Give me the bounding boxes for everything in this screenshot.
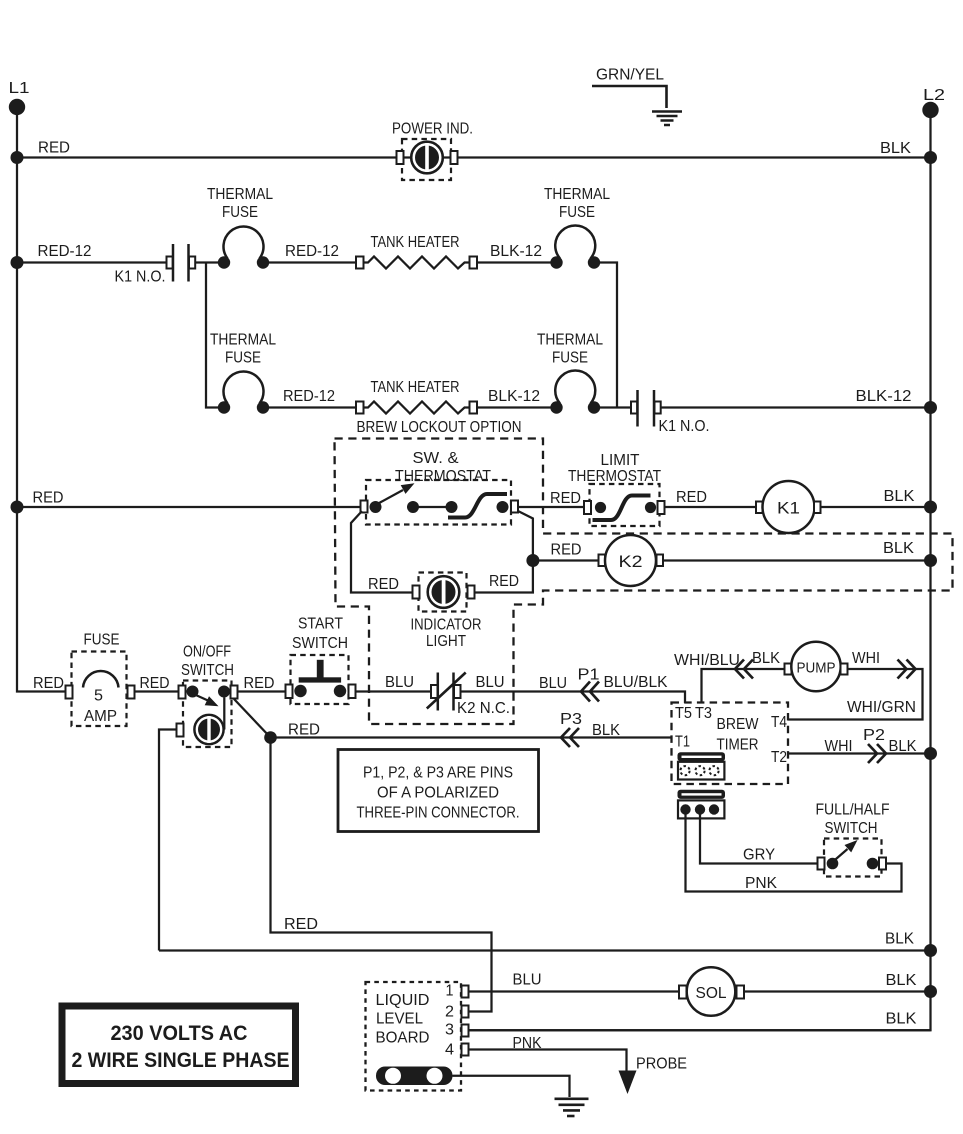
connector timer upper bar	[678, 752, 726, 761]
svg-text:K1 N.O.: K1 N.O.	[659, 418, 710, 435]
connector chevrons WHI right	[898, 660, 916, 679]
svg-text:LIGHT: LIGHT	[426, 633, 466, 650]
svg-text:P1, P2, & P3 ARE PINS: P1, P2, & P3 ARE PINS	[363, 765, 513, 782]
svg-text:3: 3	[445, 1022, 454, 1039]
svg-text:BLK: BLK	[885, 931, 914, 948]
node junction L2 row4	[924, 501, 937, 514]
svg-text:BLK-12: BLK-12	[488, 388, 540, 405]
fuse FUSE 5 AMP	[66, 632, 135, 727]
svg-text:1: 1	[446, 983, 454, 1000]
svg-text:BREW: BREW	[717, 716, 760, 733]
svg-text:230 VOLTS AC: 230 VOLTS AC	[111, 1022, 248, 1045]
connector timer upper socket	[678, 762, 724, 780]
solenoid SOL	[679, 967, 744, 1016]
svg-text:RED: RED	[33, 490, 64, 507]
svg-text:THREE-PIN CONNECTOR.: THREE-PIN CONNECTOR.	[357, 805, 520, 822]
svg-text:RED: RED	[489, 573, 519, 590]
pin 4	[445, 1042, 469, 1059]
connector pin P1 chevrons	[581, 682, 599, 702]
wire heater to fuse row3	[477, 406, 557, 408]
svg-text:SW. &: SW. &	[413, 450, 459, 467]
wire GRN/YEL to ground	[592, 86, 667, 108]
svg-text:THERMAL: THERMAL	[210, 332, 276, 349]
svg-text:2 WIRE SINGLE PHASE: 2 WIRE SINGLE PHASE	[72, 1049, 290, 1072]
wire fuse to heater row3	[263, 406, 356, 408]
wire lamp to bottom BLK row	[159, 730, 177, 951]
connector board pill	[376, 1067, 453, 1086]
wire P3 row to brew timer T1	[271, 736, 672, 738]
svg-text:BLK: BLK	[752, 650, 780, 667]
svg-text:RED: RED	[140, 675, 170, 692]
wire fuse to heater row2	[263, 261, 356, 263]
svg-text:WHI: WHI	[852, 650, 880, 667]
svg-text:FUSE: FUSE	[222, 204, 258, 221]
lamp POWER IND.	[392, 121, 473, 181]
wire fuse to on/off switch	[135, 690, 179, 692]
wire start switch to K2 N.C.	[356, 690, 432, 692]
connector pin P2 chevrons	[868, 744, 886, 763]
node junction L2 row3	[924, 401, 937, 414]
svg-text:T4: T4	[771, 714, 787, 731]
thermostat LIMIT THERMOSTAT	[568, 452, 665, 526]
svg-text:5: 5	[94, 688, 103, 705]
thermal fuse row3 right	[537, 332, 603, 414]
svg-text:BLK: BLK	[889, 738, 917, 755]
svg-text:T2: T2	[771, 749, 787, 766]
wire contact to fuse dot	[196, 261, 225, 263]
svg-text:BLU: BLU	[385, 674, 414, 691]
svg-text:K1: K1	[777, 499, 800, 518]
svg-text:BLK: BLK	[883, 540, 914, 557]
wire L1 to K1 contact	[17, 261, 167, 263]
wire K2 to L2	[663, 559, 931, 561]
wire pin3 BLK row	[469, 1029, 931, 1031]
svg-text:BLK-12: BLK-12	[490, 243, 542, 260]
ground earth symbol top	[652, 112, 682, 126]
wire K1 to L2	[821, 506, 931, 508]
wire solenoid to L2	[744, 990, 931, 992]
svg-text:FUSE: FUSE	[559, 204, 595, 221]
connector timer upper slot	[682, 756, 722, 758]
ground earth symbol bottom	[555, 1099, 589, 1116]
contact K1 N.O. row3	[631, 390, 710, 435]
wire pump to elbow down to T4	[788, 669, 923, 720]
probe PROBE arrow	[619, 1056, 688, 1095]
svg-text:T5: T5	[675, 705, 692, 722]
wire fuse to contact row3	[594, 406, 631, 408]
svg-text:POWER IND.: POWER IND.	[392, 121, 473, 138]
svg-text:PNK: PNK	[513, 1035, 542, 1052]
svg-text:BLK: BLK	[886, 972, 917, 989]
svg-text:T1: T1	[675, 734, 690, 751]
resistor TANK HEATER row2	[356, 234, 477, 269]
motor PUMP	[785, 642, 848, 691]
svg-text:RED: RED	[244, 675, 275, 692]
svg-text:AMP: AMP	[84, 708, 117, 725]
svg-text:BLK: BLK	[880, 140, 911, 157]
svg-text:THERMAL: THERMAL	[537, 332, 603, 349]
box BREW TIMER dashed	[672, 703, 789, 785]
svg-text:RED: RED	[551, 542, 582, 559]
node junction L1 row4	[11, 501, 24, 514]
node junction L1 row1	[11, 151, 24, 164]
svg-text:BLK-12: BLK-12	[856, 388, 912, 405]
relay coil K2	[599, 535, 664, 586]
switch SW. & THERMOSTAT	[361, 450, 519, 525]
note box P1 P2 P3 pins	[338, 750, 539, 832]
wire pin4 PNK to probe	[469, 1050, 627, 1072]
svg-text:BLU: BLU	[476, 674, 505, 691]
svg-text:SWITCH: SWITCH	[292, 635, 348, 652]
wire on/off to start switch	[238, 690, 286, 692]
svg-text:BOARD: BOARD	[376, 1030, 430, 1047]
svg-text:PUMP: PUMP	[797, 660, 836, 677]
svg-text:P3: P3	[560, 711, 582, 728]
svg-text:TANK HEATER: TANK HEATER	[371, 234, 460, 251]
pin 1	[446, 983, 469, 1000]
node junction L1 row2	[11, 256, 24, 269]
svg-text:BLK: BLK	[886, 1011, 917, 1028]
switch ON/OFF SWITCH	[177, 644, 238, 748]
wire sw-thermostat to limit thermostat	[518, 506, 584, 508]
svg-text:L1: L1	[9, 80, 30, 97]
svg-text:RED: RED	[550, 490, 581, 507]
svg-text:K2 N.C.: K2 N.C.	[457, 700, 510, 717]
svg-text:FUSE: FUSE	[225, 350, 261, 367]
svg-text:T3: T3	[695, 705, 712, 722]
wire bypass right riser	[475, 511, 533, 593]
wire RED down from P3 junction to board pin2	[271, 738, 492, 1012]
svg-text:PROBE: PROBE	[636, 1056, 687, 1073]
node L1	[9, 80, 30, 115]
svg-text:THERMAL: THERMAL	[544, 186, 610, 203]
svg-text:4: 4	[445, 1042, 454, 1059]
wire L1 rail	[17, 107, 66, 692]
wire diagonal to P3 junction	[234, 699, 271, 738]
pin 2	[445, 1004, 469, 1021]
svg-text:P1: P1	[578, 667, 600, 684]
wire row2 elbow down to row3	[594, 263, 617, 408]
svg-text:RED: RED	[38, 140, 70, 157]
svg-text:FUSE: FUSE	[552, 350, 588, 367]
label box 230 VOLTS AC	[62, 1006, 296, 1084]
wire PNK left pin loop	[686, 812, 902, 892]
svg-text:K1 N.O.: K1 N.O.	[115, 269, 166, 286]
svg-text:RED: RED	[33, 675, 64, 692]
contact K1 N.O. row2	[115, 244, 196, 286]
svg-text:TANK HEATER: TANK HEATER	[371, 379, 460, 396]
svg-text:INDICATOR: INDICATOR	[411, 617, 482, 634]
svg-text:BLU: BLU	[539, 675, 567, 692]
svg-text:RED: RED	[284, 916, 318, 933]
wire limit to K1 coil	[665, 506, 757, 508]
wire L2 rail	[469, 110, 931, 1030]
svg-text:OF A POLARIZED: OF A POLARIZED	[377, 785, 499, 802]
node junction L2 BLK bottom	[924, 944, 937, 957]
switch START SWITCH	[286, 616, 356, 705]
node junction L2 row1	[924, 151, 937, 164]
svg-text:L2: L2	[923, 87, 945, 104]
wire junction to K2 coil	[533, 559, 599, 561]
pin 3	[445, 1022, 469, 1039]
wire BLK bottom row to L2	[159, 949, 931, 951]
svg-text:GRY: GRY	[743, 847, 775, 864]
svg-text:SOL: SOL	[696, 985, 727, 1002]
wire pill to ground	[453, 1076, 570, 1097]
connector timer lower socket with pins	[678, 800, 724, 818]
node junction K2 branch	[526, 554, 539, 567]
svg-text:BREW LOCKOUT OPTION: BREW LOCKOUT OPTION	[357, 419, 522, 436]
thermal fuse row2 left	[207, 186, 273, 269]
node L2	[922, 87, 945, 118]
node junction L2 T2 row	[924, 747, 937, 760]
svg-text:TIMER: TIMER	[717, 737, 759, 754]
box brew lockout option dashed outline	[335, 439, 953, 725]
resistor TANK HEATER row3	[356, 379, 477, 414]
svg-text:LEVEL: LEVEL	[376, 1011, 423, 1028]
svg-text:SWITCH: SWITCH	[825, 820, 878, 837]
connector pin P3 chevrons	[561, 728, 579, 747]
svg-text:BLU/BLK: BLU/BLK	[604, 674, 668, 691]
node junction L2 solenoid row	[924, 985, 937, 998]
svg-text:P2: P2	[863, 727, 885, 744]
wire T2 to L2	[788, 752, 931, 754]
svg-text:LIQUID: LIQUID	[376, 992, 430, 1009]
wire K2 N.C. to brew timer T5	[461, 692, 685, 704]
connector timer lower slot	[682, 793, 722, 795]
svg-text:FUSE: FUSE	[84, 632, 120, 649]
svg-text:RED: RED	[288, 722, 320, 739]
svg-text:BLK: BLK	[884, 488, 915, 505]
wire contact to L2 row3	[661, 406, 931, 408]
wire branch down to row3	[206, 263, 224, 408]
wire L1 to sw-thermostat	[17, 506, 361, 508]
wire bypass left drop	[351, 511, 413, 593]
svg-text:ON/OFF: ON/OFF	[183, 644, 231, 661]
contact K2 N.C.	[427, 673, 510, 718]
svg-text:SWITCH: SWITCH	[181, 662, 234, 679]
node junction L2 K2 row	[924, 554, 937, 567]
svg-text:RED: RED	[368, 576, 399, 593]
svg-text:RED-12: RED-12	[285, 243, 339, 260]
svg-text:GRN/YEL: GRN/YEL	[596, 67, 664, 84]
thermal fuse row2 right	[544, 186, 610, 269]
svg-text:WHI/GRN: WHI/GRN	[847, 699, 916, 716]
board LIQUID LEVEL BOARD	[366, 982, 462, 1091]
svg-text:LIMIT: LIMIT	[601, 452, 640, 469]
svg-text:START: START	[298, 616, 343, 633]
svg-text:RED-12: RED-12	[38, 243, 92, 260]
thermal fuse row3 left	[210, 332, 276, 414]
wire T3 to pump	[702, 669, 785, 703]
svg-text:BLU: BLU	[513, 972, 542, 989]
relay coil K1	[756, 481, 821, 533]
connector chevrons WHI/BLU-BLK	[735, 660, 753, 679]
svg-text:BLK: BLK	[592, 722, 620, 739]
svg-text:THERMOSTAT: THERMOSTAT	[395, 468, 491, 485]
wire pin1 BLU to solenoid	[469, 990, 680, 992]
lamp INDICATOR LIGHT	[411, 573, 482, 651]
svg-text:FULL/HALF: FULL/HALF	[816, 802, 890, 819]
svg-text:WHI: WHI	[825, 738, 853, 755]
node junction P3 red/blk	[264, 731, 277, 744]
svg-text:PNK: PNK	[745, 875, 777, 892]
wire GRY middle pin to full/half switch	[700, 812, 818, 864]
switch FULL/HALF SWITCH	[816, 802, 890, 877]
svg-text:THERMOSTAT: THERMOSTAT	[568, 468, 661, 485]
wire row1 RED/BLK line	[17, 156, 931, 158]
svg-text:RED-12: RED-12	[283, 388, 335, 405]
svg-text:THERMAL: THERMAL	[207, 186, 273, 203]
svg-text:RED: RED	[676, 489, 707, 506]
connector timer lower bar	[678, 790, 726, 799]
svg-text:WHI/BLU: WHI/BLU	[674, 652, 740, 669]
wire heater to fuse row2	[477, 261, 557, 263]
svg-text:K2: K2	[619, 552, 643, 571]
svg-text:2: 2	[445, 1004, 454, 1021]
